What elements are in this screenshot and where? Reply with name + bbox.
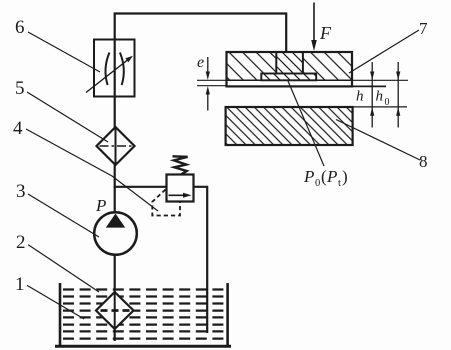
moving block 7: hatched body bbox=[227, 52, 353, 86]
label 1 bbox=[15, 274, 25, 295]
dimension h0 arrows bbox=[396, 62, 400, 128]
wire: relief valve drain to tank bbox=[194, 187, 208, 333]
label 6 bbox=[15, 17, 25, 38]
leader 1 bbox=[27, 285, 84, 319]
dimension h arrows bbox=[370, 62, 374, 128]
tank 1: reservoir walls bbox=[55, 283, 231, 346]
relief valve 4: spring bbox=[173, 156, 188, 174]
throttle valve 6: rectangle bbox=[94, 40, 135, 97]
label 8 bbox=[419, 152, 428, 171]
label P0(Pt) bbox=[303, 167, 348, 189]
svg-text:P: P bbox=[95, 196, 106, 215]
svg-text:P: P bbox=[326, 167, 337, 186]
label P (pump) bbox=[95, 196, 106, 215]
wire: suction stub below tank filter bbox=[114, 329, 116, 342]
svg-text:0: 0 bbox=[385, 97, 390, 108]
leader 5 bbox=[27, 92, 108, 142]
wire: supply pipe from throttle top to bearing bbox=[115, 14, 287, 53]
label F bbox=[319, 23, 332, 43]
label h0 bbox=[376, 89, 390, 109]
relief valve 4: pilot dashed line bbox=[152, 190, 180, 216]
svg-text:2: 2 bbox=[16, 232, 26, 253]
wire: branch to relief valve bbox=[114, 186, 167, 188]
leader 3 bbox=[28, 194, 99, 237]
svg-text:7: 7 bbox=[419, 19, 428, 38]
force F arrow bbox=[311, 3, 317, 52]
leader 2 bbox=[28, 245, 99, 292]
moving block 7: supply column lines bbox=[276, 52, 303, 74]
wire: main vertical pipe throttle to filter bbox=[114, 40, 116, 128]
svg-text:6: 6 bbox=[15, 17, 25, 38]
label 2 bbox=[16, 232, 26, 253]
svg-text:0: 0 bbox=[315, 178, 320, 189]
leader 4 bbox=[26, 129, 158, 211]
label h bbox=[356, 89, 364, 105]
leader 8 bbox=[336, 120, 420, 161]
filter 5: diamond with dash-dot bbox=[97, 127, 135, 165]
label 5 bbox=[15, 78, 25, 99]
leader P0 bbox=[288, 81, 324, 166]
throttle valve 6: arcs bbox=[105, 53, 123, 86]
pump 3: circle with filled triangle bbox=[94, 212, 137, 255]
filter 2: suction strainer diamond in tank bbox=[96, 292, 134, 329]
throttle valve 6: adjustment arrow bbox=[86, 56, 133, 93]
svg-text:F: F bbox=[319, 23, 332, 43]
svg-text:1: 1 bbox=[15, 274, 25, 295]
label 4 bbox=[13, 118, 23, 139]
wire: vertical pipe through filter to pump bbox=[114, 128, 116, 213]
guide rail 8: hatched block bbox=[226, 107, 353, 145]
svg-text:5: 5 bbox=[15, 78, 25, 99]
dimension e: arrows bbox=[206, 57, 210, 111]
leader 6 bbox=[28, 32, 100, 72]
svg-text:3: 3 bbox=[16, 181, 26, 202]
svg-text:P: P bbox=[303, 167, 314, 186]
moving block 7: oil pocket bbox=[261, 74, 316, 81]
wire: pipe pump bottom to tank filter bbox=[114, 255, 116, 293]
svg-text:): ) bbox=[342, 167, 348, 186]
svg-text:h: h bbox=[356, 89, 364, 105]
svg-text:t: t bbox=[338, 178, 341, 189]
svg-text:4: 4 bbox=[13, 118, 23, 139]
dimension e: extension lines bbox=[197, 80, 227, 85]
svg-text:8: 8 bbox=[419, 152, 428, 171]
leader 7 bbox=[349, 30, 419, 73]
dimension h and h0: extension lines right bbox=[352, 80, 408, 107]
label e bbox=[197, 54, 204, 71]
tank liquid level dashes bbox=[63, 290, 226, 339]
label 3 bbox=[16, 181, 26, 202]
relief valve 4: box bbox=[167, 175, 194, 202]
label 7 bbox=[419, 19, 428, 38]
svg-text:e: e bbox=[197, 54, 204, 71]
svg-text:h: h bbox=[376, 89, 384, 105]
